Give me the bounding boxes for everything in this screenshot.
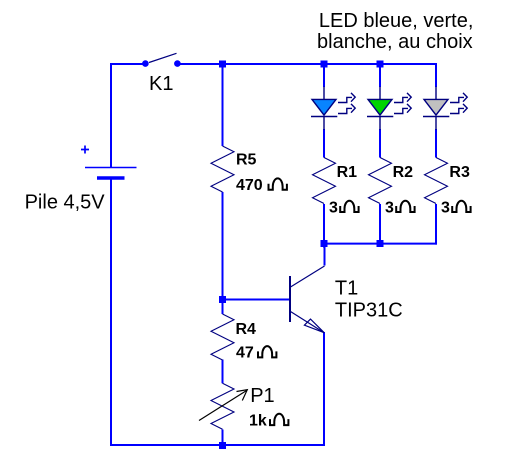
svg-text:R3: R3 xyxy=(449,164,470,181)
svg-text:470: 470 xyxy=(236,177,263,194)
svg-text:P1: P1 xyxy=(250,385,274,407)
svg-text:blanche, au choix: blanche, au choix xyxy=(317,31,473,53)
svg-text:TIP31C: TIP31C xyxy=(335,300,403,322)
svg-text:1k: 1k xyxy=(249,413,267,430)
svg-text:R2: R2 xyxy=(393,164,414,181)
svg-text:R5: R5 xyxy=(236,151,257,168)
svg-text:3: 3 xyxy=(385,200,394,217)
svg-text:3: 3 xyxy=(441,200,450,217)
svg-text:T1: T1 xyxy=(335,278,358,300)
svg-text:Pile 4,5V: Pile 4,5V xyxy=(25,192,106,214)
svg-text:R1: R1 xyxy=(337,164,358,181)
svg-text:K1: K1 xyxy=(149,73,173,95)
svg-text:LED bleue, verte,: LED bleue, verte, xyxy=(319,10,474,32)
svg-text:3: 3 xyxy=(329,200,338,217)
svg-text:R4: R4 xyxy=(236,321,257,338)
svg-text:47: 47 xyxy=(236,344,254,361)
